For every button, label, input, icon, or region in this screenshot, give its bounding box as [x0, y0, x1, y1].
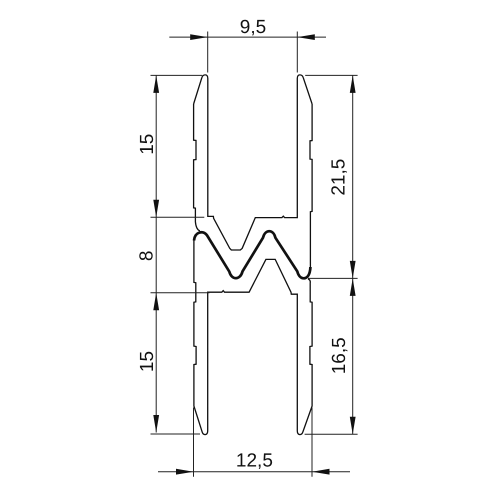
svg-text:15: 15 — [137, 134, 158, 155]
svg-text:21,5: 21,5 — [329, 159, 350, 196]
svg-text:15: 15 — [137, 351, 158, 372]
svg-text:9,5: 9,5 — [240, 17, 266, 38]
svg-text:8: 8 — [136, 251, 157, 262]
svg-text:16,5: 16,5 — [329, 337, 350, 374]
svg-text:12,5: 12,5 — [236, 451, 273, 472]
